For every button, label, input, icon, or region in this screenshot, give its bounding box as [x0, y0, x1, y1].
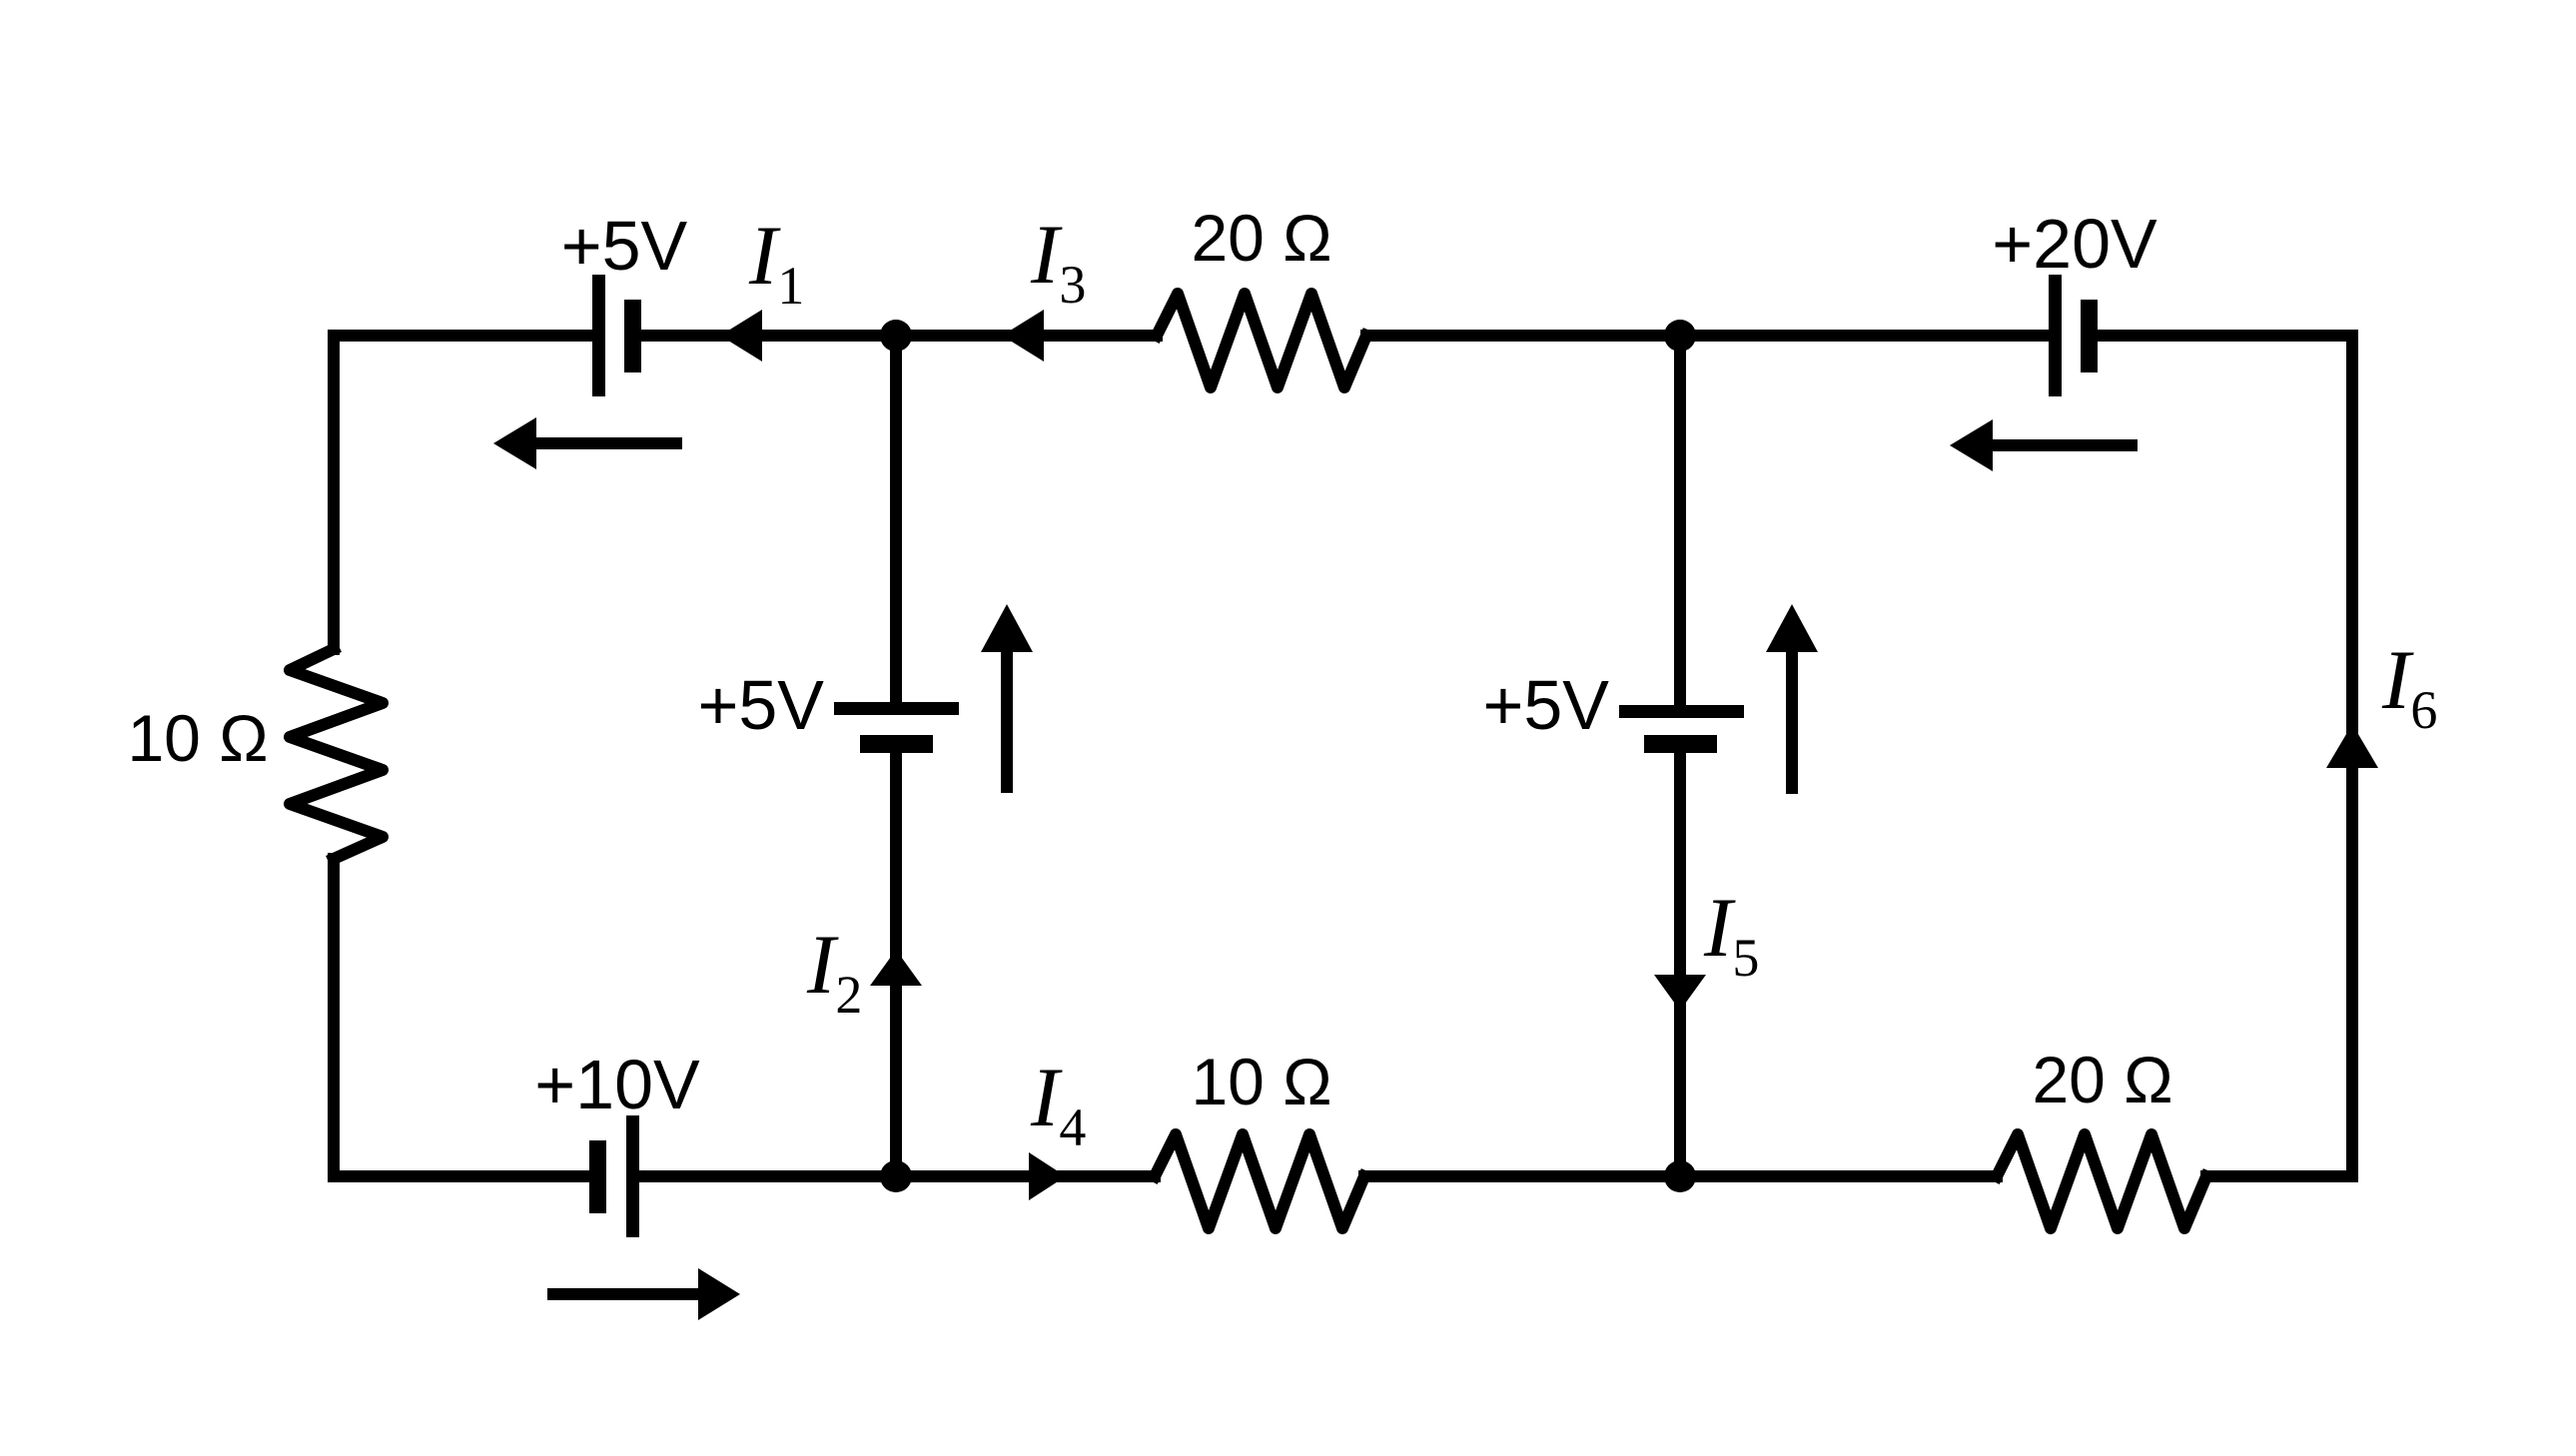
- current arrowhead I5: [1654, 975, 1706, 1011]
- wire bottom-left segment: [334, 1170, 589, 1182]
- resistor R3 20ohm bottom-right: [1997, 1134, 2206, 1228]
- wire middle branch upper: [890, 336, 902, 702]
- svg-text:+5V: +5V: [698, 666, 825, 744]
- battery B4 +5V middle: long plate: [834, 702, 959, 715]
- current arrowhead I1: [720, 310, 762, 362]
- wire middle branch lower: [890, 753, 902, 1176]
- wire right branch lower: [1674, 753, 1686, 1176]
- wire left side upper: [328, 336, 340, 649]
- wire right branch upper: [1674, 336, 1686, 705]
- svg-text:20 Ω: 20 Ω: [1191, 201, 1331, 275]
- wire top-right segment: [1366, 330, 2049, 342]
- wire bottom far-right segment: [2206, 1170, 2352, 1182]
- battery B5 +5V right: short plate: [1644, 735, 1717, 753]
- up arrowhead middle battery: [981, 604, 1033, 652]
- wire top-middle segment: [641, 330, 1157, 342]
- svg-text:+10V: +10V: [534, 1046, 700, 1123]
- current arrowhead I2: [870, 950, 922, 986]
- battery B4 +5V middle: short plate: [860, 735, 933, 753]
- svg-text:+5V: +5V: [561, 207, 688, 285]
- battery B1 +5V top: long plate: [592, 275, 605, 396]
- current arrowhead I6: [2326, 724, 2378, 768]
- svg-text:+20V: +20V: [1992, 205, 2157, 283]
- wire left side lower: [328, 859, 340, 1176]
- loop arrowhead top-right mesh: [1950, 419, 1993, 471]
- up arrowhead right battery: [1766, 604, 1818, 652]
- wire top far-right segment: [2098, 330, 2352, 342]
- loop arrow shaft top-right mesh: [1993, 439, 2132, 451]
- wire bottom mid-right segment: [1364, 1170, 1997, 1182]
- resistor R2 10ohm bottom-left: [1155, 1134, 1364, 1228]
- svg-text:10 Ω: 10 Ω: [127, 701, 268, 775]
- battery B2 +20V top: long plate: [2049, 275, 2062, 396]
- current arrowhead I3: [1002, 310, 1044, 362]
- resistor R1 20ohm top: [1157, 294, 1366, 387]
- wire bottom-middle segment: [639, 1170, 1155, 1182]
- wire right side: [2346, 336, 2358, 1176]
- loop arrow shaft bottom mesh: [553, 1288, 698, 1300]
- up arrow shaft right battery: [1786, 652, 1798, 788]
- svg-text:+5V: +5V: [1483, 666, 1610, 744]
- node A top-middle junction: [880, 320, 912, 352]
- battery B2 +20V top: short plate: [2081, 300, 2098, 372]
- battery B5 +5V right: long plate: [1619, 705, 1744, 718]
- node D bottom-right junction: [1664, 1160, 1696, 1192]
- current arrowhead I4: [1029, 1152, 1066, 1200]
- node C bottom-middle junction: [880, 1160, 912, 1192]
- resistor R4 10ohm left side: [290, 649, 383, 859]
- up arrow shaft middle battery: [1001, 652, 1013, 787]
- loop arrow shaft top-left mesh: [536, 437, 676, 449]
- battery B3 +10V bottom: short plate: [589, 1140, 606, 1213]
- svg-text:20 Ω: 20 Ω: [2032, 1043, 2172, 1116]
- battery B1 +5V top: short plate: [624, 300, 641, 372]
- battery B3 +10V bottom: long plate: [626, 1115, 639, 1237]
- node B top-right junction: [1664, 320, 1696, 352]
- loop arrowhead bottom mesh: [698, 1268, 740, 1320]
- loop arrowhead top-left mesh: [493, 417, 536, 469]
- svg-text:10 Ω: 10 Ω: [1191, 1045, 1331, 1118]
- wire top-left segment: [334, 330, 592, 342]
